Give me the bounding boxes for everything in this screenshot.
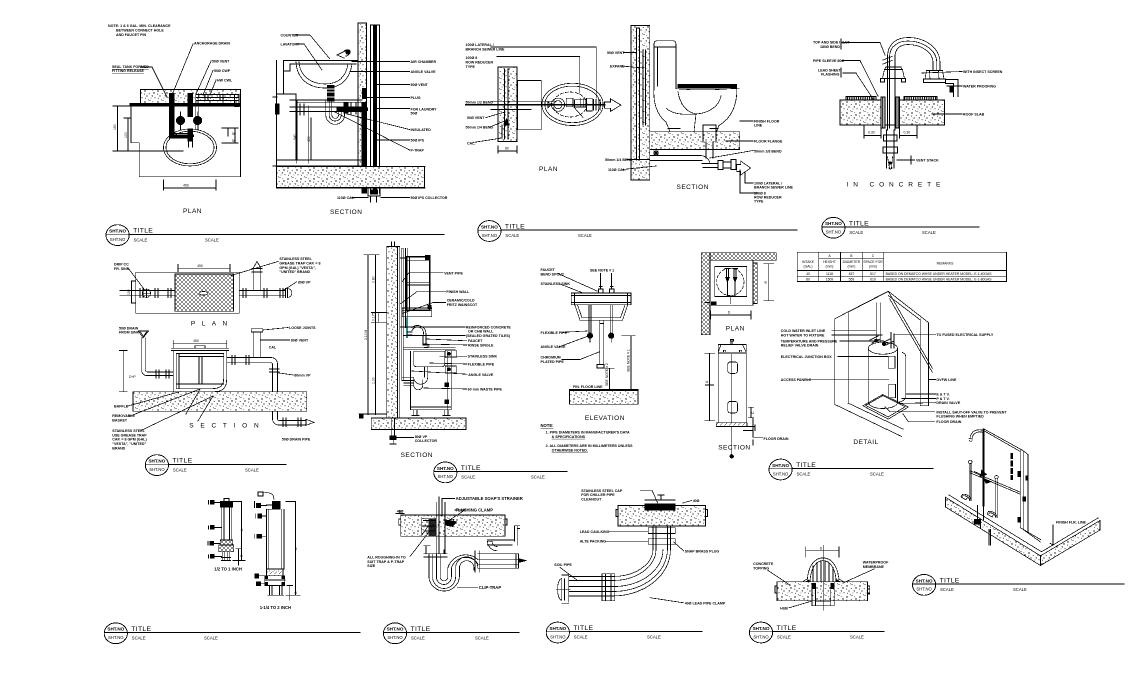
SECTION caption [677,184,709,191]
faucet [337,50,349,58]
top labels [541,268,615,286]
downspout bell [924,71,946,83]
floor band left speckled [946,497,1041,565]
p-trap U [326,101,345,124]
svg-text:50Ø CWP: 50Ø CWP [214,69,231,73]
svg-text:50: 50 [232,139,236,143]
flush fittings cluster [551,98,564,111]
drain pipe vertical [436,497,445,554]
small valve top cap [220,501,233,507]
pipe below floor [989,530,990,546]
counter speckled band [141,90,241,106]
svg-text:50: 50 [232,132,236,136]
black corner block [711,302,716,305]
vent stack label [916,159,939,163]
svg-text:ANGLE VALVE: ANGLE VALVE [411,70,437,74]
title block 11 [749,622,884,643]
SECTION caption [718,445,750,452]
svg-text:80: 80 [806,277,810,281]
DETAIL caption [853,439,878,446]
access panels [888,356,895,368]
bowl profile [654,86,737,132]
floor slab [570,390,638,404]
svg-text:80Ø VENT: 80Ø VENT [291,338,309,342]
ELEVATION caption [585,415,625,422]
wall speckled band [498,67,517,142]
svg-text:50mm 1/2 BEND: 50mm 1/2 BEND [466,101,494,105]
svg-text:PLAN: PLAN [539,166,558,173]
title block 8 [104,623,360,644]
inlet fitting circle [142,289,150,297]
left edge dim [273,97,277,166]
svg-text:DRAIN VALVE: DRAIN VALVE [936,401,960,405]
left labels [466,101,494,146]
svg-text:OTHERWISE NOTED.: OTHERWISE NOTED. [552,449,588,453]
svg-text:C: C [751,411,755,414]
cabinet sill [402,308,431,317]
pipe above wall [392,242,395,247]
lead caulking labels [580,530,610,544]
svg-text:50Ø IPS COLLECTOR: 50Ø IPS COLLECTOR [411,196,448,200]
closet flange and riser [703,125,716,158]
label drain fr sink [114,263,130,271]
floor plate under heater [863,395,909,420]
title block 4 [145,455,286,476]
svg-text:SCALE: SCALE [578,233,592,238]
sink bowl [414,351,445,367]
inlet funnel [139,331,149,338]
counter body outline [131,90,241,177]
below floor waste pipe [650,155,710,163]
svg-text:50mm 1/8 BEND: 50mm 1/8 BEND [754,150,782,154]
40 dia label [397,510,404,514]
flush pipe in wall [643,50,646,125]
large valve body [267,509,284,569]
tank inner [176,354,224,389]
svg-text:SCALE: SCALE [850,635,864,640]
svg-text:PLUG: PLUG [411,96,421,100]
soil pipe in wall [505,69,509,139]
dimension bottom 450 [164,180,217,190]
svg-text:COLLECTOR: COLLECTOR [415,439,438,443]
outlet horizontal pipe [475,551,519,572]
tank outer [173,351,227,392]
svg-text:SEE NOTE # 1: SEE NOTE # 1 [590,269,614,273]
svg-text:FLUSHING WHEN EMPTIED: FLUSHING WHEN EMPTIED [936,415,984,419]
svg-text:PLAN: PLAN [183,208,202,215]
baffle inside [176,357,224,385]
svg-text:SEE NOTE # 1: SEE NOTE # 1 [627,349,631,372]
flushing clamp black marks [445,520,457,527]
svg-text:457: 457 [849,272,855,276]
svg-text:SIZE: SIZE [367,564,376,568]
vent riser plan [252,269,262,291]
dome base wings [800,579,846,584]
svg-text:SECTION: SECTION [718,445,750,452]
pipe below slab with couplings [887,130,895,168]
p-trap S curve (4 parallel) [433,554,478,589]
cross bolts cabinet [445,383,449,387]
IN CONCRETE caption [847,182,946,189]
svg-text:SECTION: SECTION [677,184,709,191]
floor slab [277,167,425,188]
svg-text:150: 150 [127,289,131,295]
dim above dome [806,547,839,557]
svg-text:WATER PROOFING: WATER PROOFING [963,85,996,89]
svg-text:S E C T I O N: S E C T I O N [189,423,261,430]
upper right vent pipe [488,526,520,551]
sink rim [404,348,455,350]
roof slab left speckled [840,100,881,125]
svg-text:BAFFLE: BAFFLE [114,405,129,409]
svg-text:LEAD CAULKING: LEAD CAULKING [580,530,610,534]
supply drops [589,305,612,333]
base hatch band [716,423,747,427]
svg-text:WITH INSECT SCREEN: WITH INSECT SCREEN [963,70,1003,74]
pipe chase lines [371,25,380,193]
note text [108,24,171,37]
top wall hatched [701,253,776,260]
svg-text:ADJUSTABLE SOAP'S STRAINER: ADJUSTABLE SOAP'S STRAINER [456,496,523,501]
valves [176,116,184,124]
couplings [648,528,675,545]
svg-text:VENT PIPE: VENT PIPE [444,271,463,275]
elbow arcs [612,550,670,596]
large valve side fittings [255,503,262,585]
svg-text:FITTING RELEASE: FITTING RELEASE [112,69,145,73]
hinge dashes on wall [1011,454,1013,480]
labels right column [411,60,448,200]
wall fitting squares [1018,471,1028,522]
supply pipe to right [196,95,239,107]
svg-text:TOPPING: TOPPING [753,566,769,570]
svg-text:1118: 1118 [826,272,833,276]
title block 3 [822,217,979,238]
labels right of riser [269,326,316,442]
wall speckled column [387,247,398,419]
top leader lateral [491,47,597,98]
svg-text:PLAN: PLAN [726,326,745,333]
svg-text:SCALE: SCALE [922,230,936,235]
dark waste stack [362,103,367,194]
svg-text:SEE NOTE # 2: SEE NOTE # 2 [605,363,609,386]
svg-text:TYPE: TYPE [754,200,764,204]
SECTION caption [330,209,362,216]
cleanout cap [645,500,675,504]
svg-text:50mm 1/4 BEND: 50mm 1/4 BEND [466,126,494,130]
drain outlet box [812,583,834,605]
drain tailpiece dark [327,85,334,101]
svg-text:540: 540 [293,134,297,140]
svg-text:ELEVATION: ELEVATION [585,415,625,422]
svg-text:EXPAND: EXPAND [610,65,625,69]
svg-text:50mm 1/4 BEND: 50mm 1/4 BEND [605,158,633,162]
svg-text:SCALE: SCALE [531,475,545,480]
PLAN caption [726,326,745,333]
svg-text:A: A [705,380,709,383]
svg-text:50Ø VENT: 50Ø VENT [212,60,230,64]
center axis [822,545,824,610]
center line [731,354,733,455]
pipe stubs with arrows [725,269,738,278]
end cap [285,289,292,298]
faucet riser pipes dark [169,94,174,138]
floor slab speckled [650,132,740,150]
svg-text:FLASHING: FLASHING [821,73,840,77]
svg-text:TO FUSED ELECTRICAL SUPPLY: TO FUSED ELECTRICAL SUPPLY [936,333,993,337]
gooseneck bend [888,38,941,71]
dim verticals left [364,255,387,415]
pipe 2 riser [970,464,971,501]
svg-text:ACCESS PANELS: ACCESS PANELS [781,378,812,382]
dim right [605,336,635,390]
svg-text:50Ø: 50Ø [411,112,418,116]
svg-text:0.80: 0.80 [371,276,375,283]
title block 6 [769,459,933,480]
svg-text:80Ø VP: 80Ø VP [298,281,311,285]
vent riser up [251,329,262,358]
label 50 drain from sink [119,326,140,334]
dim 450 plan [178,265,230,273]
labels top [581,489,699,503]
heavy supply crossing line [131,103,239,106]
drain arrow hollow [306,419,314,425]
svg-text:STAINLESS SINK: STAINLESS SINK [541,282,571,286]
svg-text:450: 450 [307,136,311,142]
svg-text:619: 619 [870,277,876,281]
pipe 3 riser [996,479,997,518]
faucet joint tick [883,57,892,65]
floor slab speckled [133,392,307,412]
horizontal soil pipe [569,577,612,597]
svg-text:450: 450 [197,264,203,268]
notes [541,423,634,453]
svg-text:FR. SINK: FR. SINK [114,267,130,271]
vent pipe in chase [402,248,404,380]
labels left [605,51,633,172]
svg-text:SCALE: SCALE [870,472,884,477]
dimension right small [222,128,238,143]
clip trap label [479,585,502,590]
lavatory bowl [296,62,352,88]
roughing-in label [367,556,406,569]
right corner bracket [445,350,456,358]
faucet gooseneck [407,325,429,347]
right hatch column [753,263,757,303]
svg-text:NOTE:: NOTE: [541,423,554,428]
labels bottom left [112,405,147,451]
brass plug label [685,549,720,553]
svg-text:(mm): (mm) [847,264,855,268]
label left tank [112,65,149,73]
vent pipe vertical [888,55,896,130]
labels right [754,120,794,204]
svg-text:100: 100 [124,132,128,138]
svg-text:50Ø VENT: 50Ø VENT [411,83,429,87]
wall speckled [358,23,367,167]
svg-text:FLEXIBLE PIPE: FLEXIBLE PIPE [468,363,495,367]
seat black bar [678,85,737,88]
svg-text:FINISH FLR. LINE: FINISH FLR. LINE [1056,521,1087,525]
outlet block arrow [605,99,622,112]
svg-text:PLATED PIPE: PLATED PIPE [541,360,565,364]
fittings train to arrow [702,160,736,170]
right small dim [749,407,754,445]
floor slab [371,418,466,429]
svg-text:"UNITED" BRAND: "UNITED" BRAND [279,270,310,274]
svg-text:DETAIL: DETAIL [853,439,878,446]
svg-text:CLIP-TRAP: CLIP-TRAP [479,585,502,590]
svg-text:BASKET: BASKET [112,419,128,423]
svg-text:SCALE: SCALE [245,467,259,472]
outlet pipe from tank [227,356,271,365]
svg-text:FLOOR DRAIN: FLOOR DRAIN [764,437,789,441]
svg-text:HW CWL: HW CWL [217,79,233,83]
center slot [199,292,208,296]
svg-text:100Ø 8: 100Ø 8 [466,56,478,60]
bottom left floor edge [835,403,903,436]
outlet block arrow [737,161,751,175]
labels right vent [212,60,233,83]
horizontal supply lines [491,101,556,109]
funnel drop pipe [142,338,146,370]
svg-text:COUNTER: COUNTER [281,34,299,38]
tank lid [171,346,229,351]
dimension left [113,106,183,151]
pipe 2 foot elbow [961,494,971,500]
svg-text:FLEXIBLE PIPE: FLEXIBLE PIPE [541,331,568,335]
PLAN caption [539,166,558,173]
svg-text:FIN. FLOOR LINE: FIN. FLOOR LINE [573,385,603,389]
labels right [963,70,1003,117]
svg-text:1-1/4 TO 2 INCH: 1-1/4 TO 2 INCH [260,605,291,610]
svg-text:100Ø LATERAL /: 100Ø LATERAL / [466,43,494,47]
svg-text:P L A N: P L A N [191,321,230,328]
bowl foot [668,129,718,132]
side fittings [210,501,214,559]
center drain pipe [597,320,604,368]
svg-text:ANGLE VALVE: ANGLE VALVE [468,373,494,377]
labels left [541,331,568,364]
label 80 vp [298,281,311,285]
svg-text:2.10 M: 2.10 M [364,329,368,340]
heater circle dashed [717,268,744,295]
left dim plan [132,281,136,303]
svg-text:NOTE: 1 & 6 GAL. MIN. CLEARANC: NOTE: 1 & 6 GAL. MIN. CLEARANCE [108,24,171,28]
svg-text:B: B [295,547,298,551]
svg-text:VENT STACK: VENT STACK [916,159,939,163]
svg-text:P-TRAP: P-TRAP [411,149,425,153]
inlet pipe left [120,289,175,298]
large valve bottom [267,569,283,576]
svg-text:MEMBRANE: MEMBRANE [863,565,885,569]
pipe below slab [653,526,671,550]
svg-text:0.30: 0.30 [904,131,911,135]
svg-text:1.00: 1.00 [371,377,375,384]
svg-text:ALTE PACKING: ALTE PACKING [580,540,607,544]
P L A N caption [191,321,230,328]
wall panel edges [984,429,1028,532]
bottom step and drain [743,418,755,437]
fin floor line [573,385,603,389]
PLAN caption [183,208,202,215]
title block 10 [546,622,702,643]
svg-text:BRANCH SEWER LINE: BRANCH SEWER LINE [754,186,794,190]
svg-text:LOOSE JOINTS: LOOSE JOINTS [289,326,316,330]
svg-text:SCALE: SCALE [647,635,661,640]
elbow down right [270,358,280,420]
sink rim [571,293,631,305]
outlet arrow [518,559,526,563]
svg-text:0.175: 0.175 [371,312,375,321]
roof slab right speckled [900,100,945,125]
svg-text:ELECTRICAL JUNCTION BOX: ELECTRICAL JUNCTION BOX [781,355,832,359]
top labels [466,43,506,69]
water heater cylinder [868,342,897,354]
flange under slab [424,546,447,557]
water proofing step lines right [946,80,959,97]
svg-text:40Ø LEAD PIPE CLAMP: 40Ø LEAD PIPE CLAMP [685,601,726,605]
svg-text:SECTION: SECTION [401,452,433,459]
svg-text:80: 80 [505,147,509,151]
svg-text:CLEANOUT: CLEANOUT [581,497,602,501]
floor slab speckled [401,515,505,536]
stainless steel grease trap note [279,257,320,274]
slab speckled [618,505,706,526]
svg-text:D: D [820,547,823,551]
labels left [813,41,850,77]
lead pipe clamp label [685,601,726,605]
valves black dots [587,333,592,338]
strainer leader [442,499,455,517]
small valve bottom collar [220,540,233,545]
left wall hatched [701,253,710,335]
tank [654,41,676,89]
below slab dim boxes [864,125,917,138]
svg-text:FRITZ WAINSCOT: FRITZ WAINSCOT [447,303,478,307]
svg-text:ROW REDUCER: ROW REDUCER [466,61,494,65]
labels left counter/lavatory [281,34,300,47]
slab speckled [777,582,868,601]
svg-text:AIR CHAMBER: AIR CHAMBER [411,60,437,64]
svg-text:FLOOR FLANGE: FLOOR FLANGE [754,140,783,144]
svg-text:FLOOR DRAIN: FLOOR DRAIN [936,420,961,424]
sink bowl ellipse [164,129,217,166]
waste piping horizontals [290,107,362,112]
caption [214,567,242,572]
svg-text:AND FAUCET PIN: AND FAUCET PIN [116,33,147,37]
svg-text:ANCHORAGE DRAIN: ANCHORAGE DRAIN [194,42,230,46]
caption [260,605,291,610]
top pipes [876,303,894,349]
svg-text:50Ø VENT: 50Ø VENT [607,51,625,55]
drain tailpiece [425,367,428,378]
below floor pipe collector [392,418,395,436]
dome strainer [807,558,839,584]
crosshatched trap body [175,274,234,311]
svg-text:SCALE: SCALE [205,237,219,242]
collector fitting [368,188,380,196]
svg-text:D+P: D+P [129,375,136,379]
svg-text:LINE: LINE [754,124,763,128]
svg-text:450: 450 [193,339,199,343]
svg-text:SCALE: SCALE [475,636,489,641]
outer box [136,272,239,313]
svg-text:50Ø DRAIN PIPE: 50Ø DRAIN PIPE [282,437,311,441]
labels right upper [444,271,478,307]
counter top [284,61,359,72]
top center stub [730,340,733,345]
